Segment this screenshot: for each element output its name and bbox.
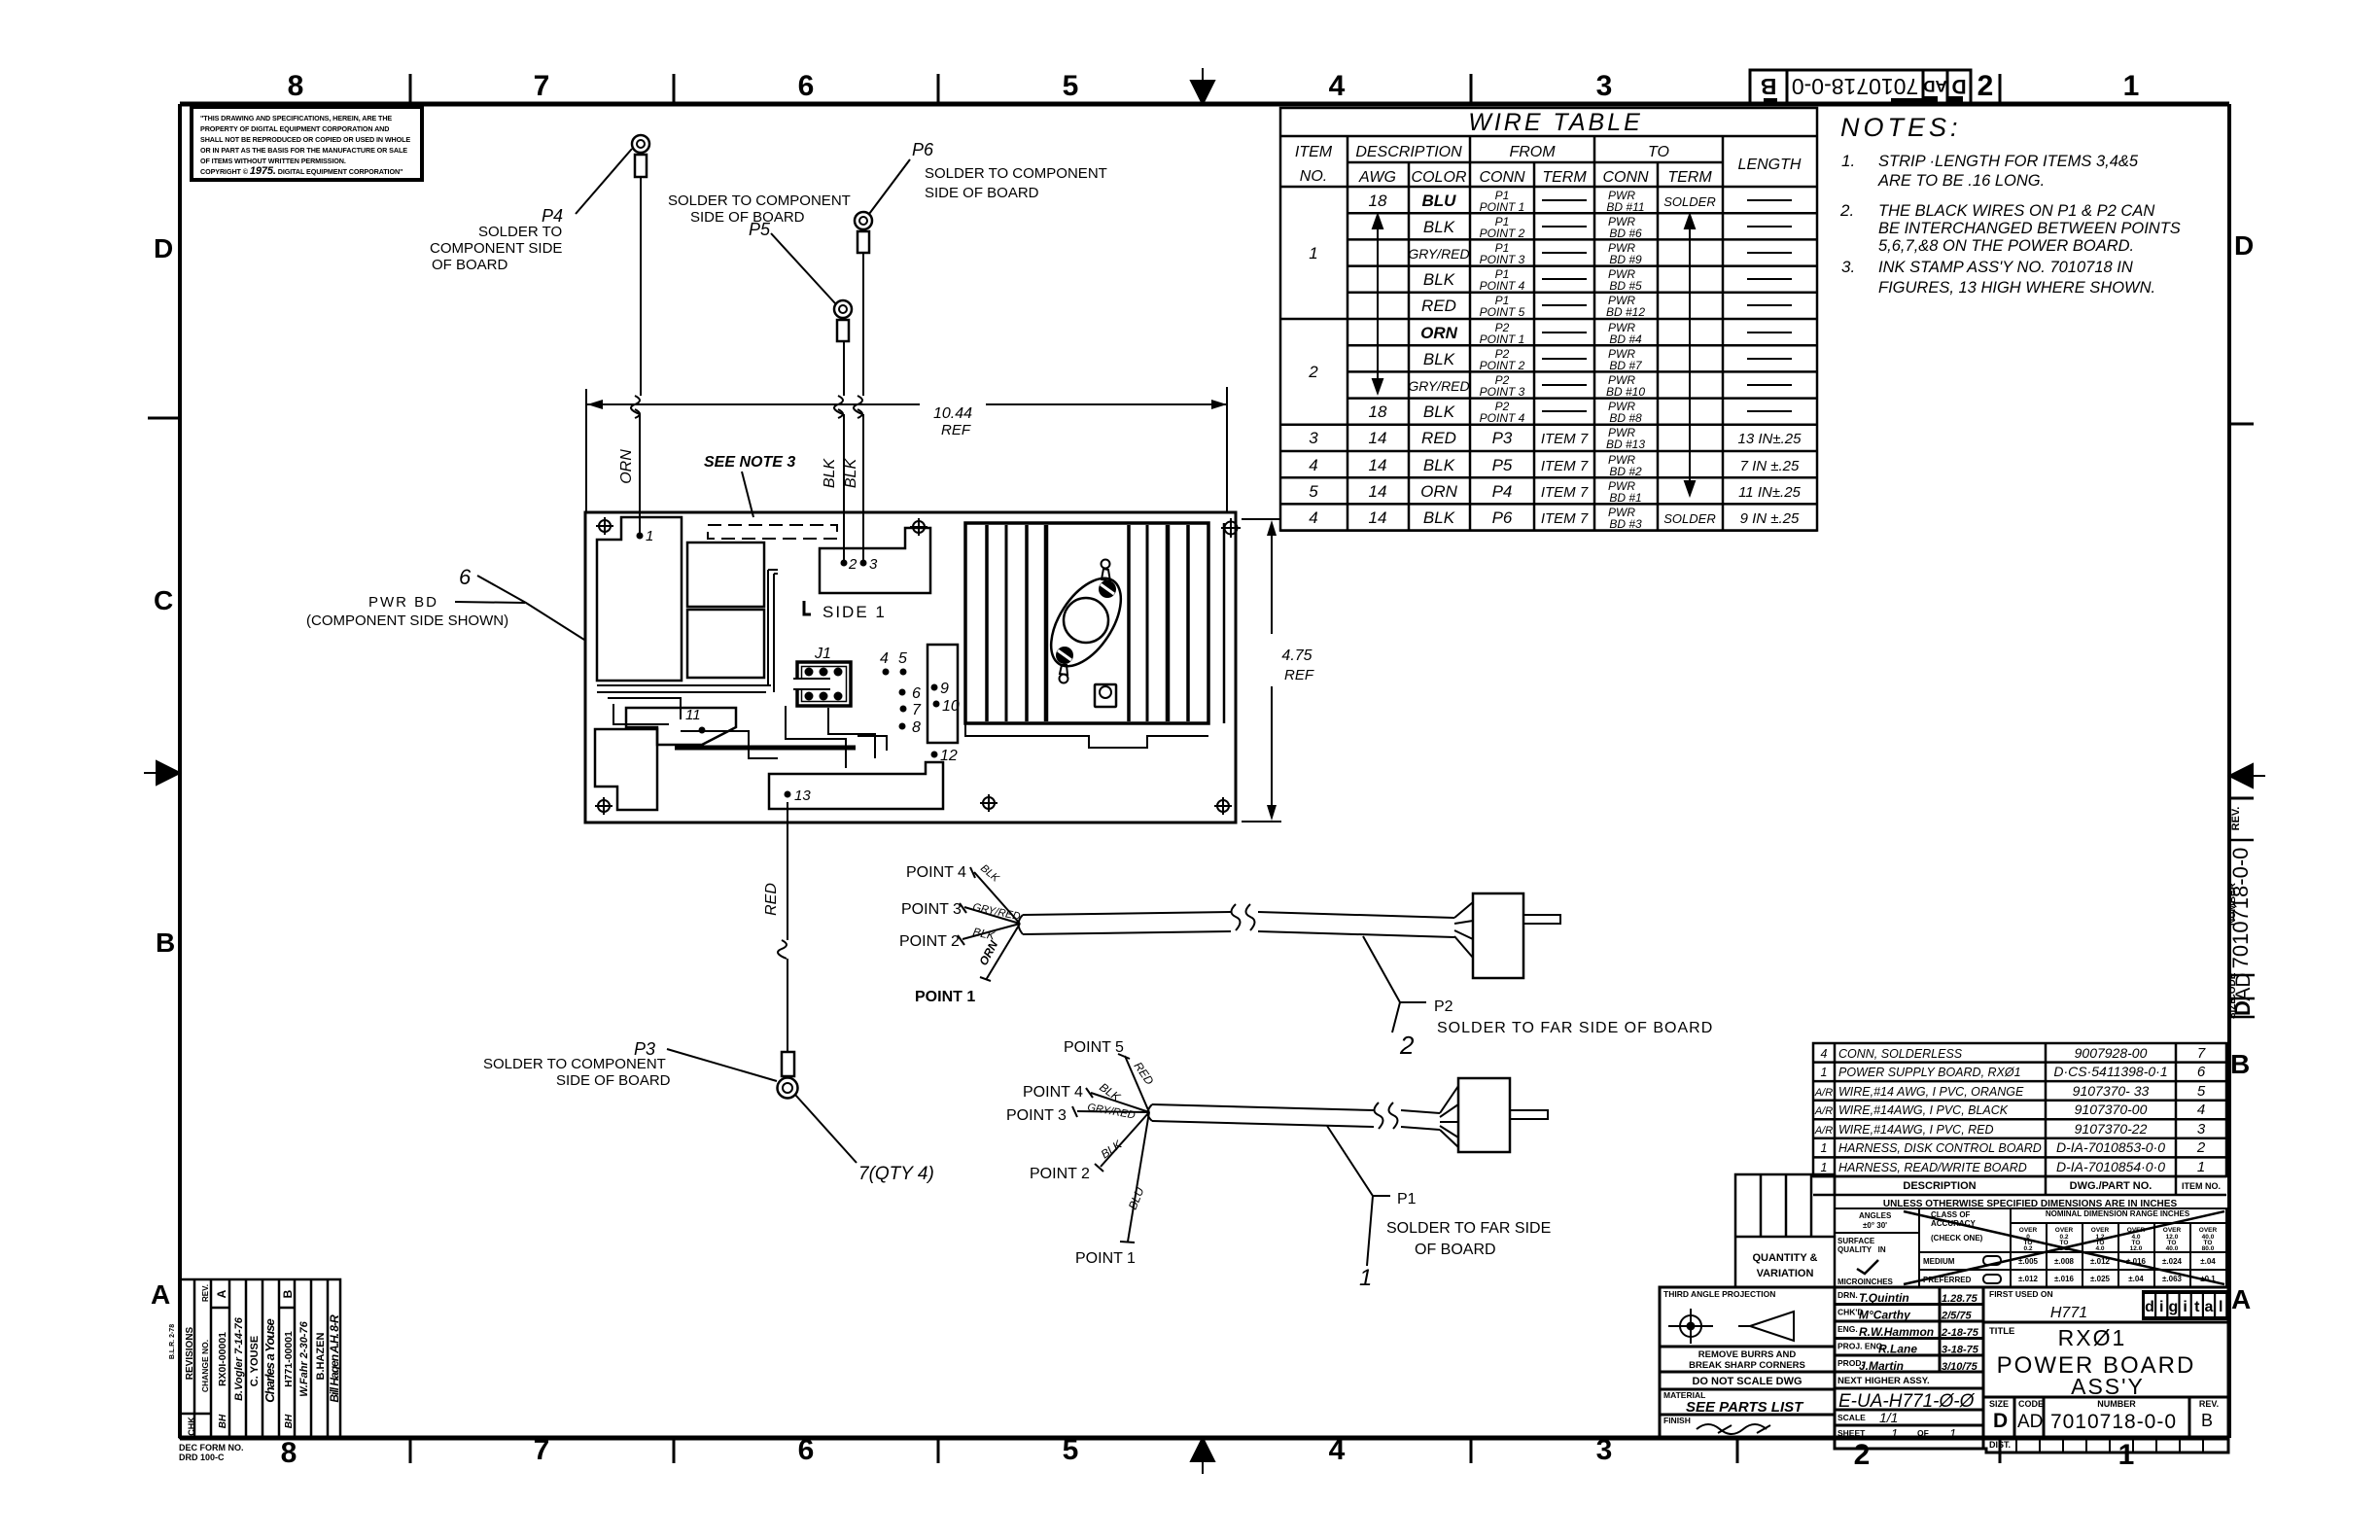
svg-text:SOLDER TO COMPONENT: SOLDER TO COMPONENT — [668, 192, 851, 209]
notes heading — [1840, 113, 1962, 142]
svg-text:C: C — [154, 585, 173, 615]
svg-text:1.: 1. — [1841, 152, 1855, 170]
svg-text:P5: P5 — [749, 220, 771, 239]
svg-text:(COMPONENT SIDE SHOWN): (COMPONENT SIDE SHOWN) — [306, 612, 508, 629]
svg-text:D: D — [2234, 230, 2254, 261]
svg-text:OVER: OVER — [2163, 1227, 2182, 1234]
svg-text:9 IN ±.25: 9 IN ±.25 — [1740, 510, 1800, 527]
pad rect lower — [687, 610, 764, 678]
ring terminal P5 — [834, 300, 852, 341]
svg-text:2: 2 — [1977, 70, 1994, 102]
svg-text:LENGTH: LENGTH — [1738, 157, 1802, 173]
svg-text:±0° 30': ±0° 30' — [1863, 1221, 1887, 1230]
svg-text:C. YOUSE: C. YOUSE — [249, 1336, 261, 1386]
svg-text:OVER: OVER — [2019, 1227, 2038, 1234]
quantity variation block — [1735, 1174, 1835, 1287]
svg-text:WIRE,#14AWG, I PVC, RED: WIRE,#14AWG, I PVC, RED — [1838, 1123, 1994, 1137]
svg-text:BE INTERCHANGED BETWEEN POINTS: BE INTERCHANGED BETWEEN POINTS — [1878, 220, 2181, 237]
svg-text:WIRE,#14AWG, I PVC, BLACK: WIRE,#14AWG, I PVC, BLACK — [1838, 1103, 2009, 1117]
pad with point 1 — [597, 517, 682, 681]
svg-text:D: D — [1993, 1410, 2008, 1432]
svg-text:B.HAZEN: B.HAZEN — [315, 1333, 327, 1381]
harness P1 — [1006, 1039, 1551, 1291]
thick trace bar — [675, 746, 856, 751]
svg-text:6: 6 — [798, 1434, 815, 1466]
point 1 — [637, 533, 644, 540]
svg-text:MICROINCHES: MICROINCHES — [1837, 1277, 1894, 1286]
svg-text:GRY/RED: GRY/RED — [1408, 246, 1469, 262]
svg-text:REF: REF — [941, 422, 971, 438]
svg-text:13: 13 — [794, 787, 811, 804]
ring terminal P6 — [855, 212, 872, 253]
svg-text:CONN, SOLDERLESS: CONN, SOLDERLESS — [1838, 1047, 1963, 1061]
svg-text:12: 12 — [940, 748, 958, 764]
svg-text:1: 1 — [2123, 70, 2140, 102]
svg-text:A/R: A/R — [1814, 1105, 1833, 1117]
svg-text:5: 5 — [1309, 482, 1318, 501]
svg-text:4.75: 4.75 — [1281, 647, 1312, 664]
svg-text:1: 1 — [646, 528, 653, 544]
svg-text:t: t — [2194, 1299, 2200, 1315]
mounting screw top — [1099, 580, 1116, 598]
svg-text:SIDE OF BOARD: SIDE OF BOARD — [690, 209, 805, 226]
svg-text:Charles a Youse: Charles a Youse — [262, 1319, 277, 1403]
svg-text:T.Quintin: T.Quintin — [1859, 1291, 1909, 1305]
see note 3 callout — [704, 454, 795, 517]
note 1 — [1841, 152, 2139, 190]
svg-text:8: 8 — [281, 1437, 297, 1469]
svg-text:B.Vogler 7-14-76: B.Vogler 7-14-76 — [233, 1316, 245, 1401]
callout 7 QTY 4 — [795, 1095, 934, 1184]
heat sink fins left — [987, 525, 1046, 721]
points 4-8 — [880, 650, 922, 736]
svg-text:SHEET: SHEET — [1837, 1428, 1866, 1438]
svg-text:ANGLES: ANGLES — [1859, 1211, 1892, 1220]
svg-text:POINT 5: POINT 5 — [1064, 1039, 1124, 1056]
svg-text:FROM: FROM — [1509, 144, 1556, 160]
svg-text:2.: 2. — [1839, 201, 1854, 220]
svg-text:5,6,7,&8 ON THE POWER BOARD.: 5,6,7,&8 ON THE POWER BOARD. — [1878, 237, 2134, 255]
svg-text:SOLDER TO: SOLDER TO — [478, 224, 562, 240]
DEC form number bottom left — [179, 1443, 244, 1462]
svg-text:POINT 3: POINT 3 — [1480, 385, 1525, 399]
svg-text:D·CS·5411398-0·1: D·CS·5411398-0·1 — [2053, 1064, 2167, 1079]
svg-text:E-UA-H771-Ø-Ø: E-UA-H771-Ø-Ø — [1838, 1391, 1976, 1412]
svg-text:3: 3 — [1596, 1434, 1613, 1466]
svg-text:TITLE: TITLE — [1989, 1326, 2014, 1337]
svg-text:4: 4 — [1329, 70, 1346, 102]
bottom zone ticks — [410, 1438, 2000, 1463]
svg-text:14: 14 — [1369, 429, 1387, 447]
svg-text:P4: P4 — [542, 206, 563, 226]
heat sink outline — [965, 523, 1208, 723]
svg-text:ITEM 7: ITEM 7 — [1541, 484, 1589, 501]
svg-text:H771: H771 — [2050, 1305, 2087, 1321]
svg-text:80.0: 80.0 — [2202, 1245, 2215, 1252]
svg-text:SURFACE: SURFACE — [1837, 1237, 1875, 1245]
svg-text:H771-00001: H771-00001 — [283, 1331, 295, 1387]
svg-text:W.Fahr 2-30-76: W.Fahr 2-30-76 — [298, 1320, 310, 1396]
svg-text:TERM: TERM — [1542, 169, 1587, 186]
svg-text:A: A — [151, 1279, 170, 1310]
svg-text:POINT 3: POINT 3 — [901, 901, 962, 918]
svg-text:J1: J1 — [814, 646, 831, 662]
svg-text:INK STAMP ASS'Y NO. 7010718 IN: INK STAMP ASS'Y NO. 7010718 IN — [1878, 259, 2133, 276]
svg-text:2/5/75: 2/5/75 — [1941, 1311, 1972, 1322]
svg-text:1: 1 — [1309, 244, 1317, 262]
svg-text:±.012: ±.012 — [2018, 1275, 2039, 1283]
bottom strip pad with point 13 — [769, 762, 943, 809]
svg-text:ITEM 7: ITEM 7 — [1541, 458, 1589, 474]
svg-text:POINT 1: POINT 1 — [915, 989, 975, 1005]
svg-text:1: 1 — [2118, 1439, 2135, 1471]
svg-text:TERM: TERM — [1667, 169, 1712, 186]
svg-text:3: 3 — [869, 556, 878, 573]
svg-text:12.0: 12.0 — [2130, 1245, 2143, 1252]
harness P2 — [899, 862, 1713, 1060]
svg-text:ITEM 7: ITEM 7 — [1541, 510, 1589, 527]
svg-text:1: 1 — [1891, 1426, 1898, 1441]
svg-text:DRD 100-C: DRD 100-C — [179, 1452, 225, 1462]
svg-text:R.Lane: R.Lane — [1878, 1343, 1917, 1356]
svg-text:7: 7 — [534, 70, 550, 102]
svg-text:FINISH: FINISH — [1663, 1416, 1691, 1425]
svg-text:14: 14 — [1369, 482, 1387, 501]
P2 leader and text — [1363, 936, 1426, 1032]
svg-text:BD #9: BD #9 — [1609, 253, 1642, 266]
svg-text:BD #6: BD #6 — [1609, 227, 1642, 240]
svg-text:AWG: AWG — [1358, 169, 1396, 186]
heat sink fins right — [1129, 525, 1188, 721]
svg-text:THIRD ANGLE PROJECTION: THIRD ANGLE PROJECTION — [1663, 1289, 1775, 1299]
svg-text:CHANGE NO.: CHANGE NO. — [200, 1340, 210, 1392]
svg-text:TO: TO — [1648, 144, 1669, 160]
svg-text:NO.: NO. — [1300, 168, 1327, 185]
fiducial bottom-middle — [980, 794, 997, 812]
pad rect upper — [687, 542, 764, 607]
svg-text:POINT 2: POINT 2 — [1480, 359, 1525, 372]
svg-text:18: 18 — [1369, 402, 1387, 421]
P1 leader and text — [1327, 1126, 1390, 1266]
svg-text:6: 6 — [798, 70, 815, 102]
svg-text:POINT 1: POINT 1 — [1075, 1250, 1136, 1267]
svg-text:SEE NOTE 3: SEE NOTE 3 — [704, 454, 795, 471]
svg-text:4: 4 — [1821, 1047, 1828, 1061]
svg-text:6: 6 — [2197, 1064, 2206, 1080]
right margin fold arrow — [2229, 764, 2265, 787]
svg-text:7: 7 — [534, 1434, 550, 1466]
point 11 — [699, 727, 706, 734]
note 2 — [1839, 201, 2181, 255]
svg-text:AD: AD — [1923, 77, 1947, 95]
svg-text:GRY/RED: GRY/RED — [1408, 378, 1469, 394]
callout P5 — [668, 192, 851, 303]
svg-text:D-IA-7010853-0·0: D-IA-7010853-0·0 — [2056, 1139, 2165, 1155]
svg-text:WIRE,#14 AWG, I PVC, ORANGE: WIRE,#14 AWG, I PVC, ORANGE — [1838, 1085, 2024, 1099]
svg-text:ORN: ORN — [1420, 482, 1458, 501]
svg-text:SCALE: SCALE — [1837, 1413, 1866, 1422]
svg-text:BLK: BLK — [822, 458, 838, 489]
svg-text:REF: REF — [1284, 667, 1314, 683]
svg-text:SEE PARTS LIST: SEE PARTS LIST — [1686, 1399, 1804, 1416]
svg-text:11 IN±.25: 11 IN±.25 — [1738, 484, 1801, 501]
svg-text:BH: BH — [218, 1414, 228, 1428]
svg-text:COLOR: COLOR — [1412, 169, 1467, 186]
svg-text:HARNESS, DISK CONTROL BOARD: HARNESS, DISK CONTROL BOARD — [1838, 1141, 2042, 1155]
svg-text:CONN: CONN — [1602, 169, 1649, 186]
svg-text:±.063: ±.063 — [2162, 1275, 2183, 1283]
transistor pin top — [1102, 560, 1110, 569]
svg-text:6: 6 — [459, 565, 472, 589]
svg-text:3/10/75: 3/10/75 — [1942, 1361, 1978, 1373]
svg-text:ORN: ORN — [1420, 324, 1458, 342]
svg-text:9107370-22: 9107370-22 — [2075, 1121, 2148, 1137]
svg-text:REV.: REV. — [2230, 807, 2242, 831]
svg-text:4: 4 — [1329, 1434, 1346, 1466]
svg-text:i: i — [2183, 1299, 2187, 1315]
title block — [1660, 1287, 2228, 1452]
svg-text:18: 18 — [1369, 192, 1387, 210]
svg-text:BD #1: BD #1 — [1609, 491, 1641, 505]
svg-text:OVER: OVER — [2199, 1227, 2218, 1234]
svg-text:SIDE 1: SIDE 1 — [822, 603, 887, 621]
svg-text:1: 1 — [1821, 1066, 1828, 1079]
svg-text:7: 7 — [912, 702, 922, 718]
svg-text:P2: P2 — [1434, 998, 1453, 1015]
top center fold arrow — [1191, 68, 1214, 104]
svg-text:BLK: BLK — [1423, 402, 1455, 421]
svg-text:BREAK SHARP CORNERS: BREAK SHARP CORNERS — [1689, 1360, 1805, 1371]
svg-text:RXØ1: RXØ1 — [2058, 1325, 2127, 1350]
svg-text:2: 2 — [1399, 1031, 1415, 1060]
zone letters right — [2230, 230, 2254, 1314]
svg-text:RX0I-00001: RX0I-00001 — [217, 1332, 228, 1386]
svg-text:OF ITEMS WITHOUT WRITTEN PERMI: OF ITEMS WITHOUT WRITTEN PERMISSION. — [200, 157, 346, 165]
svg-text:8: 8 — [288, 70, 304, 102]
svg-text:SOLDER: SOLDER — [1663, 511, 1715, 526]
svg-text:±.008: ±.008 — [2054, 1257, 2075, 1266]
point 13 — [785, 791, 791, 798]
svg-text:11: 11 — [685, 707, 701, 723]
svg-text:Bill Hagen A.H. 8-R: Bill Hagen A.H. 8-R — [328, 1314, 341, 1403]
svg-text:BD #8: BD #8 — [1609, 411, 1642, 425]
P1 fan wires — [1072, 1054, 1149, 1242]
P1 connector tail — [1510, 1110, 1548, 1119]
svg-text:POINT 4: POINT 4 — [1480, 279, 1525, 293]
svg-text:ENG.: ENG. — [1837, 1324, 1858, 1334]
svg-text:BH: BH — [284, 1414, 295, 1428]
svg-text:OVER: OVER — [2055, 1227, 2074, 1234]
small pad with hole on heatsink — [1095, 684, 1116, 707]
fiducial bottom-left — [595, 797, 612, 815]
fiducial top-left — [596, 517, 613, 535]
svg-text:5: 5 — [898, 650, 907, 667]
svg-text:OF BOARD: OF BOARD — [432, 257, 508, 273]
svg-text:POINT 3: POINT 3 — [1480, 253, 1525, 266]
svg-text:D: D — [1951, 75, 1966, 97]
svg-text:7 IN ±.25: 7 IN ±.25 — [1740, 458, 1800, 474]
top zone ticks — [410, 74, 2000, 104]
svg-text:MEDIUM: MEDIUM — [1923, 1257, 1955, 1266]
svg-text:BD #7: BD #7 — [1609, 359, 1643, 372]
svg-text:4: 4 — [1309, 456, 1317, 474]
transistor pin bottom — [1060, 675, 1068, 683]
dimension 4.75 REF — [1242, 519, 1314, 822]
svg-text:D-IA-7010854·0·0: D-IA-7010854·0·0 — [2056, 1159, 2165, 1174]
svg-text:POINT 2: POINT 2 — [899, 933, 960, 950]
svg-text:DESCRIPTION: DESCRIPTION — [1355, 144, 1462, 160]
svg-text:REV.: REV. — [2199, 1399, 2219, 1409]
pad with point 11 — [626, 708, 736, 745]
svg-text:REMOVE BURRS AND: REMOVE BURRS AND — [1698, 1349, 1797, 1360]
svg-text:BLK: BLK — [1423, 350, 1455, 368]
right zone ticks — [2229, 423, 2254, 426]
svg-text:4: 4 — [2197, 1102, 2205, 1118]
svg-text:7: 7 — [2197, 1045, 2206, 1062]
svg-text:DO NOT SCALE DWG: DO NOT SCALE DWG — [1692, 1376, 1802, 1387]
svg-text:3: 3 — [1309, 429, 1318, 447]
points 9 10 12 — [931, 681, 960, 764]
svg-text:2: 2 — [1308, 363, 1318, 381]
dashed rect see note 3 — [708, 525, 837, 539]
copyright block — [192, 107, 422, 180]
svg-text:R.W.Hammon: R.W.Hammon — [1859, 1325, 1934, 1339]
svg-text:A: A — [215, 1289, 228, 1298]
svg-text:3: 3 — [2197, 1121, 2206, 1137]
svg-text:DIST.: DIST. — [1989, 1440, 2011, 1450]
svg-text:14: 14 — [1369, 456, 1387, 474]
svg-text:B: B — [281, 1289, 295, 1298]
svg-text:NOMINAL DIMENSION RANGE INCHES: NOMINAL DIMENSION RANGE INCHES — [2046, 1209, 2190, 1218]
dimension 10.44 REF — [586, 387, 1227, 512]
svg-text:BLK: BLK — [1423, 508, 1455, 527]
svg-text:13 IN±.25: 13 IN±.25 — [1738, 431, 1802, 447]
P1 point labels — [1006, 1039, 1136, 1267]
svg-text:BLK: BLK — [843, 458, 859, 489]
svg-text:REV.: REV. — [201, 1284, 210, 1302]
svg-text:P3: P3 — [1492, 429, 1513, 447]
svg-text:P5: P5 — [1492, 456, 1513, 474]
svg-text:ASS'Y: ASS'Y — [2071, 1374, 2145, 1399]
svg-text:SOLDER TO FAR SIDE OF BOARD: SOLDER TO FAR SIDE OF BOARD — [1437, 1020, 1713, 1036]
svg-text:POINT 4: POINT 4 — [906, 864, 966, 881]
wire BLK P5 to board point 2 — [834, 341, 844, 563]
svg-text:6: 6 — [912, 685, 921, 702]
svg-text:RED: RED — [1421, 297, 1456, 315]
svg-text:2: 2 — [2196, 1139, 2206, 1156]
svg-text:3: 3 — [1596, 70, 1613, 102]
right margin number strip — [2227, 807, 2255, 1019]
svg-text:9107370- 33: 9107370- 33 — [2073, 1083, 2150, 1099]
svg-text:NOTES:: NOTES: — [1840, 113, 1962, 142]
tolerance block — [1835, 1208, 2226, 1287]
svg-text:CHK: CHK — [187, 1417, 196, 1436]
svg-text:AD: AD — [2232, 972, 2255, 1000]
svg-text:M°Carthy: M°Carthy — [1859, 1309, 1911, 1322]
svg-text:4: 4 — [1309, 508, 1317, 527]
pad area points 2 3 — [820, 528, 930, 593]
wire BLK P6 to board point 3 — [854, 253, 863, 563]
svg-text:1: 1 — [2197, 1159, 2205, 1175]
svg-text:WIRE TABLE: WIRE TABLE — [1468, 109, 1643, 136]
callout P4 — [430, 149, 632, 273]
svg-text:2: 2 — [1854, 1439, 1871, 1471]
top right inverted drawing number block — [1750, 70, 1971, 104]
svg-text:4.0: 4.0 — [2095, 1245, 2104, 1252]
transistor TO-3 flange — [1037, 567, 1136, 679]
svg-text:BD #10: BD #10 — [1606, 385, 1645, 399]
svg-text:OF BOARD: OF BOARD — [1415, 1242, 1496, 1258]
svg-text:QUANTITY &: QUANTITY & — [1752, 1252, 1817, 1264]
side1 corner mark — [804, 601, 811, 614]
svg-text:ITEM: ITEM — [1295, 144, 1333, 160]
P2 fan wires — [958, 867, 1020, 981]
svg-text:l: l — [2219, 1299, 2222, 1315]
svg-text:A/R: A/R — [1814, 1087, 1833, 1099]
wire RED board point 13 to P3 — [778, 802, 787, 1052]
svg-text:P6: P6 — [1492, 508, 1513, 527]
P2 point labels — [899, 864, 975, 1005]
svg-text:5: 5 — [1063, 1434, 1079, 1466]
callout P6 — [869, 140, 1107, 214]
svg-text:±.025: ±.025 — [2090, 1275, 2111, 1283]
revision block — [180, 1279, 341, 1438]
svg-text:BD #2: BD #2 — [1609, 465, 1642, 478]
svg-text:B: B — [2201, 1411, 2213, 1430]
svg-text:SHALL NOT BE REPRODUCED OR COP: SHALL NOT BE REPRODUCED OR COPIED OR USE… — [200, 135, 410, 144]
svg-text:SOLDER: SOLDER — [1663, 194, 1715, 209]
svg-text:ORN: ORN — [618, 449, 635, 484]
svg-text:B: B — [2230, 1049, 2250, 1079]
P1 cable body — [1148, 1086, 1459, 1147]
svg-text:8: 8 — [912, 719, 921, 736]
P2 connector — [1473, 893, 1523, 978]
svg-text:POINT 4: POINT 4 — [1023, 1084, 1083, 1101]
svg-text:DEC FORM NO.: DEC FORM NO. — [179, 1443, 244, 1452]
svg-text:THE BLACK WIRES ON P1 & P2 CAN: THE BLACK WIRES ON P1 & P2 CAN — [1878, 202, 2154, 220]
svg-text:7010718-0-0: 7010718-0-0 — [2228, 848, 2253, 969]
svg-text:POINT 2: POINT 2 — [1480, 227, 1525, 240]
svg-text:HARNESS, READ/WRITE BOARD: HARNESS, READ/WRITE BOARD — [1838, 1161, 2027, 1174]
svg-text:2: 2 — [848, 556, 857, 573]
svg-text:i: i — [2159, 1299, 2163, 1315]
PCB power board group — [585, 512, 1241, 822]
mounting screw bottom — [1056, 647, 1073, 664]
svg-text:1/1: 1/1 — [1879, 1410, 1898, 1425]
svg-text:B.L.R. 2-78: B.L.R. 2-78 — [169, 1324, 176, 1359]
svg-text:1: 1 — [1949, 1426, 1956, 1441]
svg-text:POWER SUPPLY BOARD, RXØ1: POWER SUPPLY BOARD, RXØ1 — [1838, 1066, 2021, 1079]
svg-text:FIGURES, 13 HIGH WHERE SHOWN.: FIGURES, 13 HIGH WHERE SHOWN. — [1878, 279, 2155, 297]
svg-text:SOLDER TO COMPONENT: SOLDER TO COMPONENT — [925, 165, 1107, 182]
svg-text:14: 14 — [1369, 508, 1387, 527]
svg-text:10.44: 10.44 — [933, 405, 972, 422]
svg-text:±.04: ±.04 — [2200, 1257, 2216, 1266]
fiducial top-middle — [910, 518, 927, 536]
svg-text:BD #3: BD #3 — [1609, 517, 1642, 531]
svg-text:POINT 1: POINT 1 — [1480, 332, 1525, 346]
svg-text:"THIS DRAWING AND SPECIFICATIO: "THIS DRAWING AND SPECIFICATIONS, HEREIN… — [200, 114, 392, 122]
svg-text:CODE: CODE — [2018, 1399, 2044, 1409]
svg-text:±.016: ±.016 — [2054, 1275, 2075, 1283]
svg-text:ITEM NO.: ITEM NO. — [2182, 1181, 2221, 1191]
svg-text:D: D — [154, 233, 173, 263]
callout 6 PWR BD — [306, 565, 584, 640]
svg-text:BD #5: BD #5 — [1609, 279, 1642, 293]
svg-text:P6: P6 — [912, 140, 934, 159]
svg-text:7010718-0-0: 7010718-0-0 — [2050, 1411, 2177, 1433]
svg-text:B: B — [1761, 74, 1777, 99]
